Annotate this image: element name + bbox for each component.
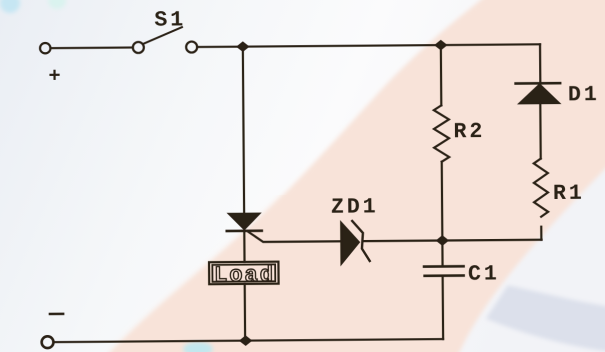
- svg-text:R1: R1: [553, 182, 585, 206]
- svg-text:R2: R2: [453, 120, 485, 144]
- svg-text:D1: D1: [568, 83, 600, 107]
- svg-text:S1: S1: [154, 9, 186, 33]
- svg-text:C1: C1: [468, 262, 500, 286]
- svg-text:ZD1: ZD1: [331, 196, 379, 220]
